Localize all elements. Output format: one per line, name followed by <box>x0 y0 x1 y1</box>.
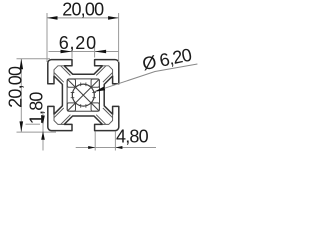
arrow 20,00 left top <box>20 59 24 70</box>
leader arrow <box>94 87 105 92</box>
arrow 4,80 right <box>115 146 122 149</box>
svg-text:6,20: 6,20 <box>59 33 97 53</box>
extension lines dimension 20,00 top <box>47 13 119 62</box>
slot floor groove ticks right <box>92 93 96 98</box>
arrow 4,80 left <box>88 146 95 149</box>
dimension line 4,80 <box>76 147 156 149</box>
dimension line 20,00 top <box>47 17 119 19</box>
corner cavity walls and web lines bottom-right <box>96 108 112 124</box>
arrow 6,20 left <box>61 50 73 53</box>
leader line dia 6,20 <box>94 64 197 92</box>
svg-text:20,00: 20,00 <box>6 66 26 108</box>
dimension line 6,20 <box>49 51 119 53</box>
arrow 1,80 bottom <box>41 131 45 140</box>
corner cavity walls and web lines top-left <box>54 66 70 82</box>
arrow 6,20 right <box>95 50 107 53</box>
extension lines dimension 4,80 <box>95 132 115 151</box>
profile outer boundary with 4 T-slot openings <box>48 60 119 131</box>
arrow 20,00 top left <box>47 16 58 20</box>
arrow 1,80 top <box>41 116 45 125</box>
dimension line 1,80 <box>42 113 44 151</box>
core square outline <box>67 79 99 111</box>
slot floor groove ticks bottom <box>81 104 86 108</box>
slot floor groove ticks left <box>71 93 75 98</box>
core corner bracket bottom-right <box>91 103 99 111</box>
corner cavity walls and web lines bottom-left <box>54 108 70 124</box>
center hole circle dia 6.20 <box>72 84 94 106</box>
arrow 20,00 top right <box>108 16 119 20</box>
reference line dimension 1,80 <box>26 123 41 125</box>
svg-text:1,80: 1,80 <box>27 92 47 125</box>
extension lines dimension 6,20 <box>72 46 95 59</box>
core corner bracket top-left <box>67 79 75 87</box>
core corner bracket top-right <box>91 79 99 87</box>
extension lines dimension 20,00 left <box>17 59 57 132</box>
arrow 20,00 left bottom <box>20 121 24 131</box>
core corner bracket bottom-left <box>67 103 75 111</box>
svg-text:4,80: 4,80 <box>116 127 149 147</box>
slot floor groove ticks top <box>81 83 86 87</box>
X diagonal webs <box>67 79 99 111</box>
corner cavity walls and web lines top-right <box>96 66 112 82</box>
svg-text:20,00: 20,00 <box>62 0 104 20</box>
dimension line 20,00 left <box>20 59 22 132</box>
